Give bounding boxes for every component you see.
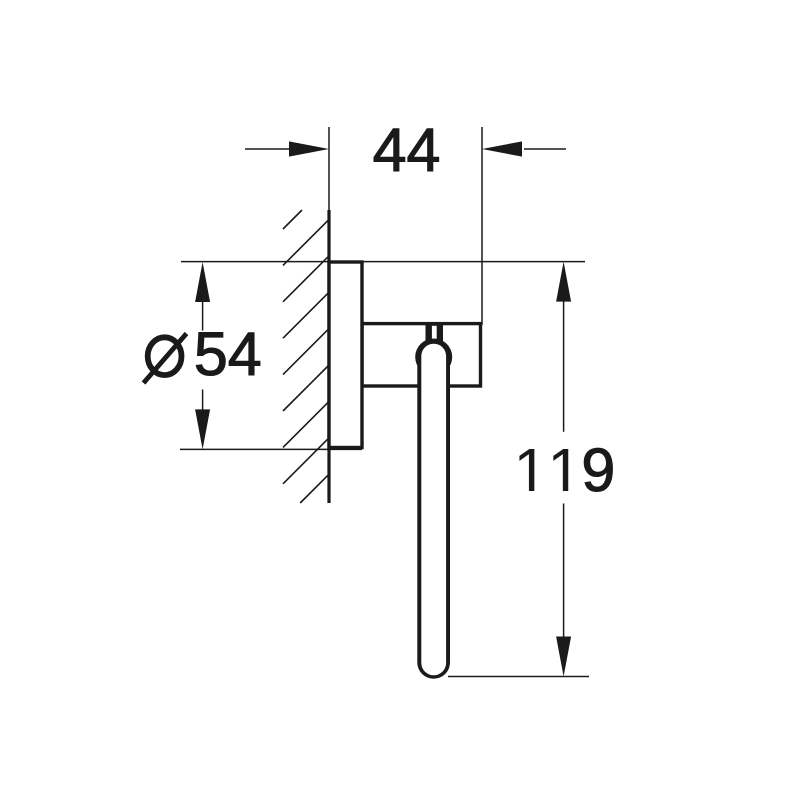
ring band (hanging loop outline) — [417, 356, 450, 679]
dimension line 44 left tail — [245, 148, 291, 150]
extension line: 44 right (arm face) — [481, 127, 483, 325]
ring hub (ball joint) — [415, 339, 452, 376]
extension line: plate bottom (O54) — [180, 448, 362, 450]
extension line: 44 left (wall) — [328, 127, 330, 210]
wall hatching — [283, 210, 329, 503]
arrow 119 down — [556, 637, 571, 677]
arrowheads — [195, 141, 571, 676]
dimension line 119 upper segment — [563, 300, 565, 432]
wall surface line — [327, 210, 330, 503]
dimension line O54 upper segment — [202, 300, 204, 331]
arrow 44 right (points left) — [482, 141, 522, 156]
dimension line 119 lower segment — [563, 504, 565, 638]
arrow 119 up — [556, 262, 571, 302]
svg-text:44: 44 — [373, 116, 441, 184]
diameter symbol O — [144, 334, 187, 384]
pivot stem (clevis) — [426, 324, 444, 342]
arrow O54 down — [195, 409, 210, 449]
dimension text 119 — [519, 449, 568, 491]
arm (horizontal bracket) — [362, 324, 481, 386]
dimension line O54 lower segment — [202, 390, 204, 413]
extension line: 119 bottom (ring bottom) — [448, 676, 589, 678]
wall plate (rosette) — [329, 262, 362, 448]
dimension line 44 right tail — [524, 148, 566, 150]
shared extension line: plate top / 119 top — [181, 261, 585, 263]
stem slot — [432, 326, 437, 342]
svg-text:9: 9 — [581, 436, 615, 504]
svg-text:54: 54 — [194, 320, 262, 388]
arrow 44 left (points right) — [289, 141, 329, 156]
ring hole (white interior) — [421, 344, 446, 676]
arrow O54 up — [195, 262, 210, 302]
